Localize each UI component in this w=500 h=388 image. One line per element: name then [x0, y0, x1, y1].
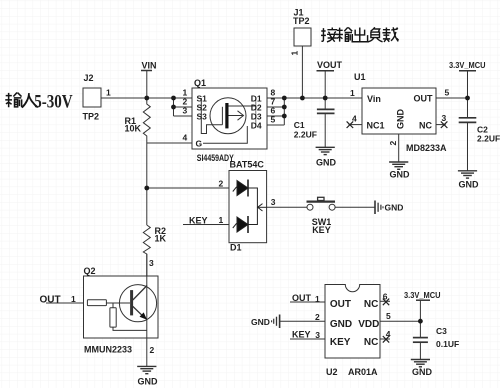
svg-text:NC: NC	[364, 337, 378, 348]
power flag VIN bar	[141, 70, 152, 72]
connector J1	[294, 28, 311, 46]
power bar 3.3V_MCU bottom	[416, 299, 430, 301]
wire: VIN stub	[146, 71, 148, 99]
wire: U1 pin5 to 3.3V node	[436, 97, 468, 99]
svg-text:VIN: VIN	[142, 61, 157, 71]
wire: vertical R1-bottom to R2	[146, 143, 148, 225]
no-connect X pin4	[347, 121, 354, 128]
wire: Q1 D pins to bus	[267, 97, 284, 99]
svg-text:Q2: Q2	[84, 266, 96, 276]
resistor R2	[143, 225, 150, 276]
svg-text:2: 2	[388, 141, 398, 146]
svg-text:NC: NC	[364, 299, 378, 310]
svg-text:4: 4	[183, 133, 188, 143]
svg-text:5: 5	[271, 115, 276, 125]
svg-text:3: 3	[315, 330, 320, 340]
wire: OUT net to Q2 pin1	[46, 302, 87, 304]
wire: U2 GND pin2	[280, 320, 325, 322]
svg-text:VOUT: VOUT	[317, 60, 343, 70]
svg-text:MD8233A: MD8233A	[406, 143, 447, 153]
svg-text:5: 5	[445, 88, 450, 98]
svg-text:2.2UF: 2.2UF	[294, 130, 317, 140]
svg-text:3.3V_MCU: 3.3V_MCU	[449, 60, 486, 70]
wire: output rail to U1	[284, 97, 362, 99]
wire: U2 pin6 stub	[380, 300, 390, 302]
svg-text:OUT: OUT	[414, 94, 434, 104]
svg-text:S3: S3	[197, 112, 208, 122]
svg-text:GND: GND	[251, 317, 270, 327]
svg-text:1: 1	[290, 51, 300, 56]
svg-text:1: 1	[350, 88, 355, 98]
switch SW1	[307, 197, 336, 210]
svg-text:VDD: VDD	[358, 319, 379, 330]
svg-text:OUT: OUT	[40, 295, 61, 306]
wire: D bus vertical	[283, 98, 285, 125]
connector J2	[83, 88, 101, 107]
svg-text:3.3V_MCU: 3.3V_MCU	[404, 290, 441, 300]
wire: VOUT stub + C1 top	[324, 71, 326, 109]
svg-text:NC: NC	[419, 121, 432, 131]
ic U1	[362, 88, 436, 134]
wire: SW1 to GND	[335, 206, 375, 208]
svg-text:D1: D1	[230, 243, 242, 253]
svg-text:2: 2	[150, 345, 155, 355]
ground under Q2	[137, 366, 156, 373]
svg-text:KEY: KEY	[292, 329, 311, 339]
svg-text:U1: U1	[354, 72, 366, 82]
char 出	[352, 27, 367, 42]
transistor Q2 box	[84, 276, 159, 338]
wire: Q2 collector/emitter vertical	[146, 254, 148, 366]
diode D1 BAT54C box	[229, 171, 267, 243]
svg-text:1K: 1K	[155, 234, 167, 244]
ground sideways left of U2 pin2	[272, 315, 280, 329]
svg-text:3: 3	[442, 113, 447, 123]
char 入 (input label)	[22, 93, 38, 107]
diode D1b bottom	[237, 217, 248, 232]
wire: J1 stub	[301, 46, 303, 98]
char 载	[382, 27, 398, 42]
ground sideways right of SW1	[375, 201, 383, 215]
wire: U1 pin3 stub	[436, 124, 446, 126]
svg-text:2.2UF: 2.2UF	[477, 134, 500, 144]
svg-text:GND: GND	[330, 319, 352, 330]
wire: KEY row to BAT54C pin1	[183, 224, 237, 226]
svg-text:TP2: TP2	[83, 112, 100, 122]
wire: U2 KEY pin3	[290, 338, 325, 340]
power flag VOUT bar	[317, 70, 335, 72]
svg-text:KEY: KEY	[312, 225, 331, 235]
resistor R1	[143, 98, 150, 143]
mosfet Q1 box	[192, 88, 267, 149]
ground under C3	[411, 360, 430, 367]
char 输	[336, 27, 352, 41]
wire: S2 from bus	[174, 106, 193, 108]
no-connect X pin3	[441, 121, 448, 128]
svg-text:U2: U2	[326, 367, 338, 377]
svg-text:C3: C3	[436, 326, 447, 336]
svg-text:GND: GND	[395, 109, 405, 130]
svg-text:D4: D4	[251, 121, 262, 131]
svg-text:G: G	[196, 139, 203, 149]
wire: U2 OUT pin1	[290, 301, 325, 303]
svg-text:C1: C1	[294, 120, 305, 130]
wire: 3.3V stub to C3	[419, 300, 421, 337]
wire: U2 pin5 to 3.3V node	[380, 320, 420, 322]
wire: BAT54C pin3 to SW1	[267, 206, 307, 208]
svg-text:Q1: Q1	[194, 78, 206, 88]
svg-text:MMUN2233: MMUN2233	[84, 345, 132, 355]
char 负	[368, 27, 383, 42]
svg-text:BAT54C: BAT54C	[230, 160, 265, 170]
svg-text:KEY: KEY	[189, 216, 208, 226]
svg-text:5-30V: 5-30V	[34, 92, 73, 113]
diode D1a top	[237, 181, 248, 196]
svg-text:TP2: TP2	[293, 16, 310, 26]
wire: S pins bus vertical	[173, 98, 175, 116]
wire: U1 pin4 stub	[349, 124, 363, 126]
wire: S3 from bus	[174, 115, 193, 117]
svg-text:GND: GND	[316, 158, 337, 168]
svg-text:1: 1	[106, 88, 111, 98]
svg-text:1: 1	[219, 215, 224, 225]
capacitor C3	[413, 337, 428, 339]
svg-text:GND: GND	[385, 202, 404, 212]
svg-text:2: 2	[315, 312, 320, 322]
wire: 3.3V stub to C2	[467, 71, 469, 118]
wire: U1 pin2 stub	[398, 134, 400, 162]
svg-text:5: 5	[386, 311, 391, 321]
capacitor C2	[459, 117, 477, 119]
ic U2	[325, 285, 380, 359]
svg-text:2: 2	[219, 179, 224, 189]
wire: U2 pin4 stub	[380, 338, 390, 340]
chinese text 输入5-30V	[5, 93, 37, 108]
ground under C2	[458, 171, 477, 178]
wire: common cathode	[248, 188, 257, 225]
svg-text:SI4459ADY: SI4459ADY	[197, 153, 234, 163]
wire: BAT54C pin2 row	[147, 187, 237, 189]
svg-text:3: 3	[183, 106, 188, 116]
svg-text:1: 1	[71, 294, 76, 304]
svg-text:1: 1	[315, 294, 320, 304]
wire: C1 to GND	[324, 113, 326, 147]
capacitor C1	[317, 108, 335, 110]
ground under C1	[316, 147, 335, 154]
svg-text:J2: J2	[84, 73, 94, 83]
svg-text:GND: GND	[459, 180, 480, 190]
svg-text:GND: GND	[390, 169, 411, 179]
svg-text:GND: GND	[412, 367, 433, 377]
svg-text:OUT: OUT	[330, 299, 351, 310]
ground under U1 pin2	[389, 162, 408, 169]
svg-text:GND: GND	[138, 376, 159, 386]
svg-text:0.1UF: 0.1UF	[436, 339, 459, 349]
svg-text:KEY: KEY	[330, 337, 351, 348]
wire: C2 to GND	[467, 122, 469, 170]
svg-text:AR01A: AR01A	[348, 367, 378, 377]
svg-text:Vin: Vin	[367, 94, 381, 104]
char 输 (input label)	[5, 93, 21, 108]
wire: pin3 inside	[257, 206, 266, 208]
power bar 3.3V_MCU top	[459, 70, 476, 72]
wire: C3 to GND	[419, 342, 421, 359]
char 接	[321, 27, 338, 42]
wire: input rail J2 to Q1 pin1	[101, 97, 192, 99]
svg-text:NC1: NC1	[367, 121, 385, 131]
svg-text:OUT: OUT	[292, 293, 312, 303]
chinese text 接输出负载	[321, 27, 398, 42]
svg-text:10K: 10K	[125, 124, 142, 134]
svg-text:3: 3	[271, 197, 276, 207]
wire: gate pin4 row	[147, 142, 192, 144]
svg-text:3: 3	[149, 258, 154, 268]
